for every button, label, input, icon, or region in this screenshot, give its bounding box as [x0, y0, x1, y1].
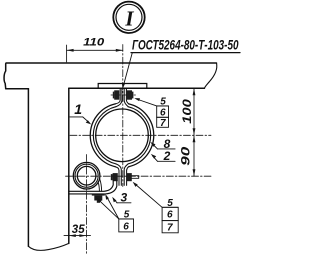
column bottom break line [28, 243, 68, 250]
slab right break line [204, 63, 216, 88]
svg-text:3: 3 [120, 190, 127, 204]
svg-text:ГОСТ5264-80-Т-103-50: ГОСТ5264-80-Т-103-50 [132, 37, 239, 52]
callout stack 5/6 bottom left [97, 194, 134, 232]
dimension 100 and 90 vertical [180, 88, 195, 176]
left console edge [4, 64, 6, 89]
console bottom line [6, 88, 29, 90]
label 2 [151, 149, 175, 163]
svg-text:6: 6 [167, 210, 173, 221]
svg-text:7: 7 [160, 118, 166, 129]
bottom flange tabs [115, 164, 128, 186]
slab top line [6, 62, 217, 64]
anchor bolt stub [97, 201, 100, 203]
svg-text:6: 6 [123, 221, 129, 232]
svg-text:35: 35 [72, 224, 85, 236]
anchor washer under bracket [92, 194, 105, 196]
top flange tabs [115, 89, 128, 107]
callout stack 5/6/7 top right [134, 97, 168, 130]
dimension 35 [64, 224, 91, 237]
column left edge [27, 89, 29, 247]
top bolt right nut [127, 90, 133, 99]
bottom bolt left nut [111, 173, 118, 181]
weld designation text GOST [131, 37, 240, 52]
pipe horizontal centerline [70, 134, 211, 136]
view circle I [113, 2, 144, 33]
bottom bolt end stub [132, 176, 139, 179]
label 8 [150, 137, 175, 151]
small clamp band tail [98, 179, 102, 192]
slab bottom line [69, 87, 205, 89]
column right face [68, 88, 70, 243]
top bolt left nut [113, 90, 119, 99]
anchor nut [94, 196, 102, 201]
label 1 [70, 101, 91, 125]
clamp band inner arc right [128, 107, 151, 164]
bottom bolt right nut [127, 173, 132, 181]
callout stack 5/6/7 bottom right [133, 182, 179, 234]
clamp band outer arc right [129, 104, 154, 167]
small pipe horizontal centerline [66, 175, 212, 177]
clamp band outer arc left [90, 104, 115, 167]
svg-text:I: I [124, 6, 134, 30]
clamp band inner arc left [93, 107, 116, 164]
top bolt axis [111, 94, 136, 96]
small pipe vertical centerline [86, 155, 88, 254]
lower support bracket plate [69, 181, 117, 194]
clamp vertical centerline [122, 45, 124, 187]
hanger bracket plate [98, 84, 147, 89]
dimension 110 [67, 36, 123, 62]
small clamp band outer circle [73, 162, 100, 189]
weld leader line [122, 53, 132, 89]
label 3 [112, 190, 131, 204]
svg-text:6: 6 [160, 108, 166, 119]
svg-text:1: 1 [74, 101, 82, 117]
svg-text:90: 90 [180, 146, 192, 166]
svg-text:100: 100 [182, 98, 194, 123]
small clamp band inner circle [75, 164, 98, 187]
pipe circle [96, 109, 149, 162]
small pipe circle [77, 166, 96, 185]
svg-text:7: 7 [167, 223, 173, 234]
svg-text:110: 110 [83, 36, 104, 48]
